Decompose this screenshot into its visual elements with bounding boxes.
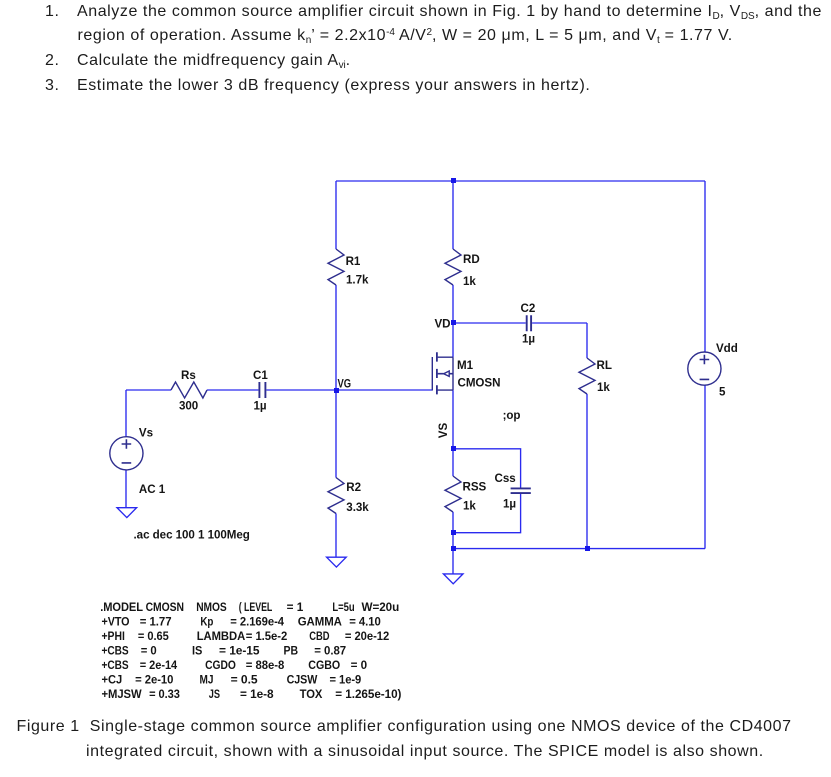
svg-text:= 1.265e-10): = 1.265e-10) [335,688,401,701]
svg-text:IS: IS [192,645,203,658]
svg-text:1µ: 1µ [522,332,535,345]
svg-text:= 88e-8: = 88e-8 [246,659,285,672]
svg-text:VG: VG [338,378,352,391]
svg-text:CBD: CBD [309,630,329,643]
svg-text:+VTO: +VTO [102,616,130,629]
svg-text:Vdd: Vdd [716,342,738,355]
svg-text:1k: 1k [463,500,476,513]
svg-text:MJ: MJ [200,674,214,687]
svg-text:CMOSN: CMOSN [458,376,501,389]
svg-text:= 0.33: = 0.33 [149,688,180,701]
svg-text:CJSW: CJSW [287,674,318,687]
svg-text:= 1e-9: = 1e-9 [330,674,362,687]
svg-text:CMOSN: CMOSN [146,601,184,614]
svg-text:VS: VS [437,423,450,439]
svg-text:CGBO: CGBO [308,659,340,672]
svg-text:+PHI: +PHI [102,630,125,643]
svg-text:+MJSW: +MJSW [102,688,142,701]
svg-text:W=20u: W=20u [362,601,400,614]
svg-text:( LEVEL: ( LEVEL [239,601,273,614]
svg-text:= 2.169e-4: = 2.169e-4 [230,616,284,629]
svg-text:+CJ: +CJ [102,674,123,687]
svg-text:RSS: RSS [463,480,487,493]
svg-text:GAMMA: GAMMA [298,616,343,629]
svg-text:= 0.65: = 0.65 [138,630,169,643]
svg-text:1.7k: 1.7k [346,273,369,286]
svg-text:= 1e-15: = 1e-15 [219,645,260,658]
svg-text:R1: R1 [346,255,361,268]
svg-text:+CBS: +CBS [102,645,129,658]
svg-text:= 0.5: = 0.5 [231,674,259,687]
svg-text:Kp: Kp [200,616,213,629]
svg-text:5: 5 [719,386,726,399]
svg-text:JS: JS [209,688,220,701]
svg-text:VD: VD [435,318,451,331]
svg-text:= 4.10: = 4.10 [349,616,381,629]
svg-text:= 20e-12: = 20e-12 [345,630,389,643]
svg-text:TOX: TOX [300,688,323,701]
svg-text:Css: Css [495,472,516,485]
svg-text:Vs: Vs [139,426,153,439]
svg-text:1k: 1k [597,381,610,394]
svg-text:= 0: = 0 [351,659,367,672]
svg-text:AC 1: AC 1 [139,483,166,496]
svg-text:M1: M1 [457,359,474,372]
svg-text:RL: RL [597,359,612,372]
svg-text:.MODEL: .MODEL [100,601,143,614]
svg-text:NMOS: NMOS [196,601,227,614]
svg-text:LAMBDA: LAMBDA [197,630,246,643]
svg-text:3.3k: 3.3k [346,501,369,514]
svg-text:= 1e-8: = 1e-8 [240,688,274,701]
svg-text:C1: C1 [253,369,268,382]
svg-text:1µ: 1µ [503,497,516,510]
svg-text:CGDO: CGDO [205,659,236,672]
svg-text:= 1: = 1 [287,601,304,614]
svg-text:;op: ;op [503,409,521,422]
svg-text:= 2e-14: = 2e-14 [140,659,178,672]
svg-text:= 2e-10: = 2e-10 [135,674,173,687]
svg-text:RD: RD [463,253,480,266]
svg-text:C2: C2 [521,302,536,315]
svg-text:1µ: 1µ [254,400,267,413]
svg-text:Rs: Rs [181,369,196,382]
svg-text:1k: 1k [463,275,476,288]
svg-text:300: 300 [179,400,198,413]
svg-text:+CBS: +CBS [102,659,129,672]
svg-text:R2: R2 [346,481,361,494]
svg-text:= 0: = 0 [141,645,157,658]
svg-text:= 1.5e-2: = 1.5e-2 [246,630,287,643]
svg-text:PB: PB [284,645,299,658]
svg-text:.ac dec 100 1 100Meg: .ac dec 100 1 100Meg [134,528,250,541]
svg-text:L=5u: L=5u [332,601,354,614]
svg-text:= 1.77: = 1.77 [140,616,172,629]
svg-text:= 0.87: = 0.87 [314,645,346,658]
